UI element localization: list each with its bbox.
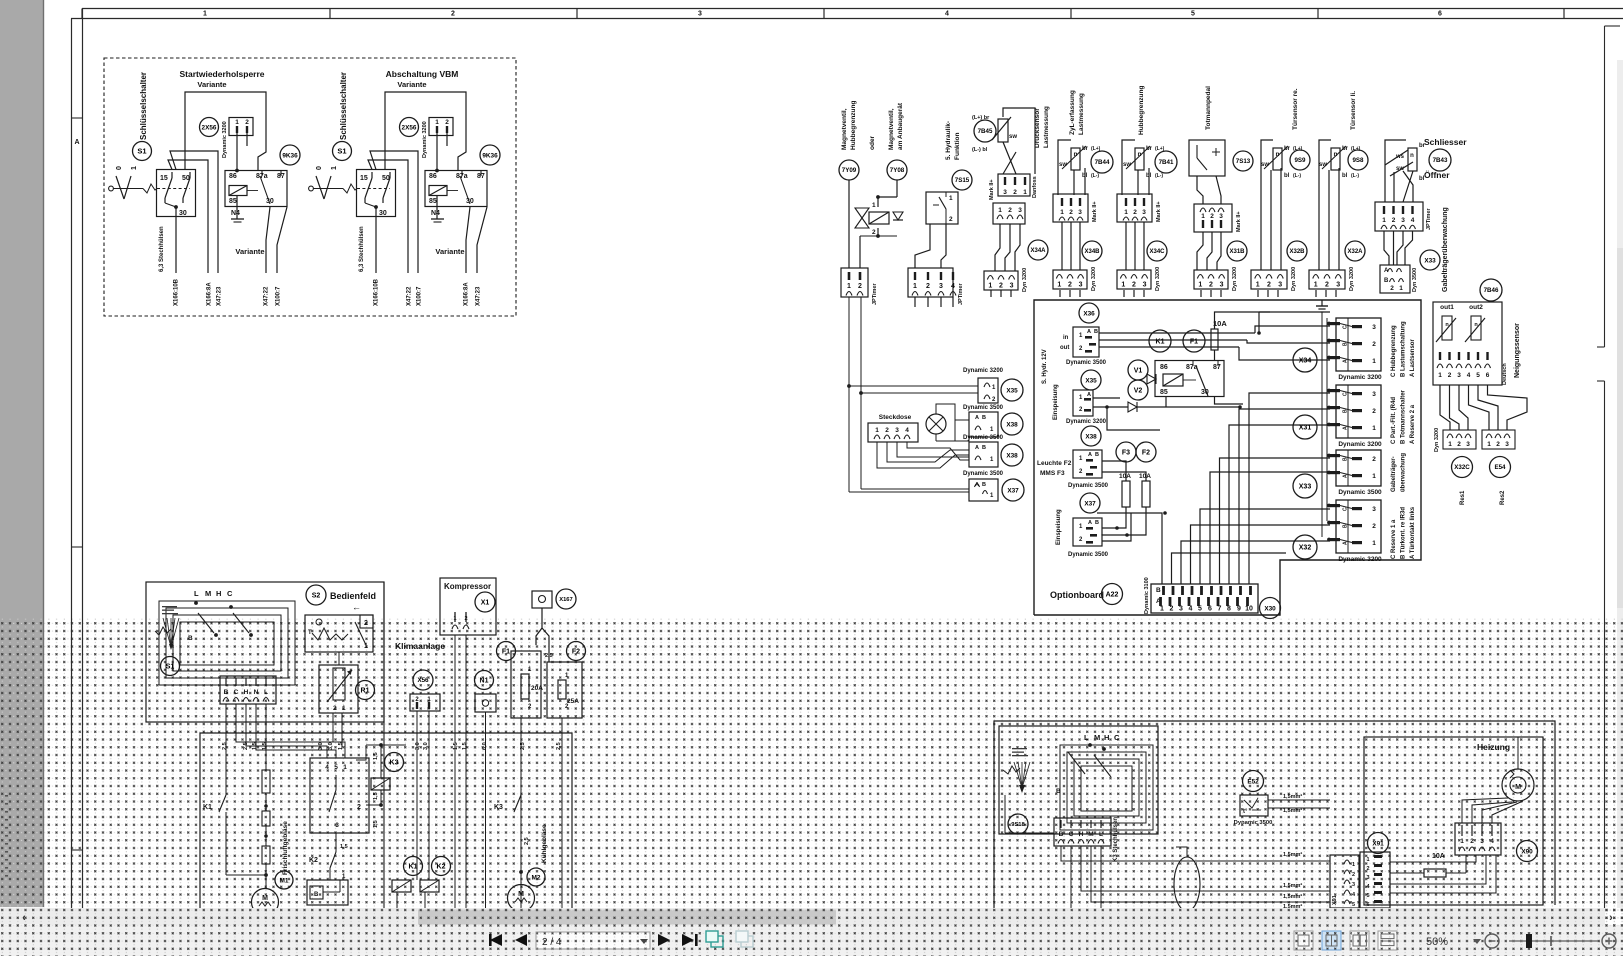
svg-text:Gabelträgerüberwachung: Gabelträgerüberwachung xyxy=(1442,207,1449,292)
svg-text:JPTimer: JPTimer xyxy=(1426,208,1432,230)
svg-text:X37: X37 xyxy=(1084,500,1096,507)
svg-text:K3: K3 xyxy=(390,760,399,767)
svg-text:1: 1 xyxy=(1487,441,1491,448)
svg-text:A: A xyxy=(1087,329,1091,335)
svg-text:sw: sw xyxy=(1009,134,1017,140)
svg-text:S1: S1 xyxy=(137,147,146,156)
svg-text:50%: 50% xyxy=(1426,936,1448,948)
svg-text:Danfoss: Danfoss xyxy=(1032,176,1038,198)
svg-text:B: B xyxy=(982,445,986,451)
svg-text:(L-): (L-) xyxy=(1155,173,1163,179)
svg-text:1: 1 xyxy=(1372,425,1376,432)
svg-text:Hubbegrenzung: Hubbegrenzung xyxy=(1138,86,1145,135)
svg-text:7B41: 7B41 xyxy=(1159,159,1174,166)
svg-text:H: H xyxy=(1079,831,1084,838)
svg-text:M: M xyxy=(518,891,524,898)
svg-text:T: T xyxy=(308,630,312,636)
svg-text:A: A xyxy=(1088,520,1092,526)
svg-text:Dynamic 3500: Dynamic 3500 xyxy=(1234,820,1273,826)
svg-text:Abschaltung VBM: Abschaltung VBM xyxy=(386,69,459,79)
svg-text:br: br xyxy=(1342,146,1349,152)
svg-text:B: B xyxy=(1343,342,1349,346)
svg-text:V1: V1 xyxy=(1134,368,1143,375)
svg-text:2: 2 xyxy=(357,804,361,811)
svg-text:7B46: 7B46 xyxy=(1484,287,1499,294)
svg-text:B: B xyxy=(1343,457,1349,461)
svg-text:Frischluftgebläse: Frischluftgebläse xyxy=(282,821,289,875)
svg-text:Magnetventil,: Magnetventil, xyxy=(888,108,895,150)
svg-text:t°: t° xyxy=(1243,809,1248,815)
svg-text:K1: K1 xyxy=(203,804,212,811)
svg-text:F3: F3 xyxy=(1122,450,1130,457)
svg-text:2: 2 xyxy=(1325,282,1329,289)
svg-text:3,0: 3,0 xyxy=(415,742,421,750)
svg-text:N4: N4 xyxy=(431,210,440,217)
svg-text:2: 2 xyxy=(364,620,368,627)
svg-text:2: 2 xyxy=(858,283,862,290)
svg-text:Bedienfeld: Bedienfeld xyxy=(330,591,376,601)
svg-text:Klimaanlage: Klimaanlage xyxy=(395,641,445,651)
svg-text:X166:10B: X166:10B xyxy=(374,278,380,306)
svg-text:1: 1 xyxy=(1124,209,1128,216)
svg-text:X34C: X34C xyxy=(1149,249,1165,255)
svg-text:4: 4 xyxy=(951,283,955,290)
svg-text:sw: sw xyxy=(1059,162,1067,168)
svg-text:2,5: 2,5 xyxy=(222,742,228,750)
svg-text:Mark II+: Mark II+ xyxy=(1092,201,1098,222)
svg-text:3: 3 xyxy=(1466,441,1470,448)
svg-text:L: L xyxy=(1099,831,1103,838)
svg-text:2: 2 xyxy=(1210,213,1214,220)
svg-text:2: 2 xyxy=(1457,441,1461,448)
svg-text:A: A xyxy=(1087,392,1091,398)
svg-text:2: 2 xyxy=(464,616,467,622)
svg-text:X56: X56 xyxy=(417,677,429,684)
svg-text:87: 87 xyxy=(1213,364,1221,371)
svg-text:7S15: 7S15 xyxy=(955,177,970,184)
svg-text:X47:23: X47:23 xyxy=(476,286,482,306)
svg-text:1: 1 xyxy=(1201,213,1205,220)
svg-text:X100:7: X100:7 xyxy=(417,286,423,306)
svg-text:C Part.-Filt. (R4d: C Part.-Filt. (R4d xyxy=(1391,397,1397,444)
svg-text:1: 1 xyxy=(949,195,953,202)
svg-text:Einspeisung: Einspeisung xyxy=(1053,384,1059,420)
svg-text:X34B: X34B xyxy=(1084,249,1100,255)
svg-text:B: B xyxy=(1384,278,1389,284)
svg-text:3,0: 3,0 xyxy=(328,742,334,750)
svg-text:2: 2 xyxy=(245,119,249,126)
svg-text:B: B xyxy=(982,482,986,488)
svg-text:›: › xyxy=(1609,912,1613,924)
svg-text:Funktion: Funktion xyxy=(954,133,961,160)
svg-text:Totmannpedal: Totmannpedal xyxy=(1205,86,1212,130)
svg-text:X47:22: X47:22 xyxy=(264,286,270,306)
svg-text:←: ← xyxy=(352,602,361,612)
svg-text:1: 1 xyxy=(1198,282,1202,289)
svg-text:86: 86 xyxy=(1160,364,1168,371)
svg-text:(L-): (L-) xyxy=(1091,173,1099,179)
svg-text:‹: ‹ xyxy=(22,912,26,924)
svg-text:Einspeisung: Einspeisung xyxy=(1056,509,1062,545)
svg-text:V2: V2 xyxy=(1134,388,1143,395)
svg-text:(L-): (L-) xyxy=(1293,173,1301,179)
svg-text:2: 2 xyxy=(1372,341,1376,348)
svg-text:1,5: 1,5 xyxy=(462,742,468,750)
svg-text:1: 1 xyxy=(331,166,338,170)
svg-text:2: 2 xyxy=(1390,285,1394,292)
svg-text:9K36: 9K36 xyxy=(282,152,298,159)
svg-text:F2: F2 xyxy=(1142,450,1150,457)
svg-text:S1: S1 xyxy=(166,664,175,671)
svg-text:A: A xyxy=(1343,359,1349,363)
svg-text:2: 2 xyxy=(451,11,455,18)
svg-text:3: 3 xyxy=(895,427,899,434)
svg-text:S. Hydr. 12V: S. Hydr. 12V xyxy=(1042,349,1048,384)
svg-text:out1: out1 xyxy=(1440,304,1454,311)
svg-text:C: C xyxy=(1343,392,1349,396)
svg-text:X38: X38 xyxy=(1006,421,1018,428)
svg-text:7B44: 7B44 xyxy=(1095,159,1110,166)
svg-text:B Totmannschalter: B Totmannschalter xyxy=(1401,389,1407,444)
svg-text:6,3 Stechhülsen: 6,3 Stechhülsen xyxy=(359,226,365,272)
svg-text:X100:7: X100:7 xyxy=(276,286,282,306)
svg-text:Dynamic 3200: Dynamic 3200 xyxy=(1338,374,1382,381)
svg-text:K2: K2 xyxy=(437,864,446,871)
svg-text:Dyn 3200: Dyn 3200 xyxy=(1022,268,1028,292)
svg-text:S2: S2 xyxy=(312,593,321,600)
svg-text:Variante: Variante xyxy=(435,247,464,256)
svg-text:7: 7 xyxy=(1218,606,1222,613)
svg-text:1,5: 1,5 xyxy=(453,742,459,750)
svg-text:86: 86 xyxy=(229,173,237,180)
svg-text:9: 9 xyxy=(1237,606,1241,613)
svg-text:Dynamic 3500: Dynamic 3500 xyxy=(963,471,1004,477)
svg-text:7Y09: 7Y09 xyxy=(842,167,857,174)
svg-text:C: C xyxy=(234,689,239,696)
svg-text:10A: 10A xyxy=(1432,853,1445,860)
svg-text:A Reserve 2 a: A Reserve 2 a xyxy=(1410,404,1416,444)
svg-text:Kühlgebläse: Kühlgebläse xyxy=(541,824,548,863)
svg-text:1: 1 xyxy=(1160,606,1164,613)
svg-text:Dynamic 3500: Dynamic 3500 xyxy=(1338,489,1382,496)
svg-text:H: H xyxy=(1104,733,1109,742)
svg-text:ZyL-erfassung: ZyL-erfassung xyxy=(1069,90,1076,135)
svg-text:5: 5 xyxy=(334,764,338,771)
svg-text:K3: K3 xyxy=(494,804,503,811)
svg-text:sw: sw xyxy=(1261,162,1269,168)
svg-text:K1: K1 xyxy=(409,864,418,871)
svg-text:7Y08: 7Y08 xyxy=(890,167,905,174)
svg-text:2: 2 xyxy=(1366,866,1369,872)
svg-text:1: 1 xyxy=(1382,217,1386,224)
svg-text:1,5mm²: 1,5mm² xyxy=(1283,793,1302,800)
svg-text:M: M xyxy=(262,895,268,902)
svg-text:X166:8A: X166:8A xyxy=(207,282,213,306)
svg-text:2: 2 xyxy=(885,427,889,434)
svg-text:3: 3 xyxy=(1372,506,1376,513)
svg-text:2: 2 xyxy=(1372,408,1376,415)
svg-text:Hubbegrenzung: Hubbegrenzung xyxy=(850,101,857,150)
svg-text:1: 1 xyxy=(872,202,876,209)
svg-text:1: 1 xyxy=(1057,282,1061,289)
svg-text:Kompressor: Kompressor xyxy=(444,582,491,591)
svg-text:5: 5 xyxy=(1476,372,1480,379)
svg-text:2: 2 xyxy=(1448,372,1452,379)
svg-text:Variante: Variante xyxy=(235,247,264,256)
svg-text:Dyn 3200: Dyn 3200 xyxy=(1291,267,1297,291)
svg-text:30: 30 xyxy=(179,210,187,217)
svg-text:X35: X35 xyxy=(1085,377,1097,384)
svg-text:K3 Stechhülsen: K3 Stechhülsen xyxy=(1113,817,1119,862)
svg-text:B: B xyxy=(1343,409,1349,413)
svg-text:3: 3 xyxy=(1219,213,1223,220)
svg-text:Deutsch: Deutsch xyxy=(1502,363,1508,385)
svg-text:1: 1 xyxy=(203,11,207,18)
svg-text:2,5: 2,5 xyxy=(524,837,530,845)
svg-text:2: 2 xyxy=(1133,209,1137,216)
svg-text:1: 1 xyxy=(342,705,346,712)
svg-text:1: 1 xyxy=(1314,282,1318,289)
svg-text:Mark II+: Mark II+ xyxy=(1236,211,1242,232)
svg-text:(L-) bl: (L-) bl xyxy=(972,147,988,153)
svg-text:30: 30 xyxy=(379,210,387,217)
svg-text:X91: X91 xyxy=(1332,895,1338,905)
svg-text:3: 3 xyxy=(1336,282,1340,289)
svg-text:X34A: X34A xyxy=(1030,248,1046,254)
svg-text:X47:23: X47:23 xyxy=(217,286,223,306)
svg-text:B: B xyxy=(1095,452,1099,458)
svg-text:L: L xyxy=(194,589,199,598)
svg-text:2: 2 xyxy=(1008,207,1012,214)
svg-text:3: 3 xyxy=(698,11,702,18)
svg-text:5: 5 xyxy=(1191,11,1195,18)
svg-text:2: 2 xyxy=(926,283,930,290)
svg-text:1: 1 xyxy=(1399,285,1403,292)
svg-text:B: B xyxy=(314,892,319,898)
svg-text:br: br xyxy=(1419,143,1426,149)
svg-text:Dyn 3200: Dyn 3200 xyxy=(1091,267,1097,291)
svg-text:N: N xyxy=(254,689,259,696)
svg-text:1,5: 1,5 xyxy=(373,752,379,760)
svg-text:Res2: Res2 xyxy=(1500,490,1506,505)
svg-text:1: 1 xyxy=(1372,358,1376,365)
svg-text:2: 2 xyxy=(1352,872,1355,878)
svg-text:N1: N1 xyxy=(480,678,489,685)
svg-text:C: C xyxy=(227,589,233,598)
svg-text:Dyn 3200: Dyn 3200 xyxy=(1434,428,1440,452)
svg-text:Steckdose: Steckdose xyxy=(879,414,912,421)
svg-text:E52: E52 xyxy=(1247,778,1259,785)
svg-text:F2: F2 xyxy=(572,649,580,656)
svg-text:7B45: 7B45 xyxy=(978,128,993,135)
svg-text:X32C: X32C xyxy=(1454,464,1470,471)
svg-text:X32A: X32A xyxy=(1347,249,1363,255)
svg-text:6: 6 xyxy=(1486,372,1490,379)
svg-text:1: 1 xyxy=(1372,473,1376,480)
svg-text:9K36: 9K36 xyxy=(482,152,498,159)
svg-text:C Reserve 1 a: C Reserve 1 a xyxy=(1391,519,1397,559)
svg-text:X38: X38 xyxy=(1085,433,1097,440)
svg-text:B: B xyxy=(188,635,193,642)
svg-text:X35: X35 xyxy=(1006,387,1018,394)
svg-text:R1: R1 xyxy=(361,688,370,695)
svg-text:br: br xyxy=(1284,146,1291,152)
svg-text:1: 1 xyxy=(847,283,851,290)
svg-text:A: A xyxy=(1343,426,1349,430)
svg-text:3: 3 xyxy=(1079,282,1083,289)
svg-text:1: 1 xyxy=(988,283,992,290)
svg-text:X167: X167 xyxy=(559,597,573,603)
svg-text:2: 2 xyxy=(1470,838,1474,845)
svg-text:C: C xyxy=(1343,325,1349,329)
svg-text:3: 3 xyxy=(1366,875,1369,881)
svg-text:JPTimer: JPTimer xyxy=(958,283,964,305)
svg-text:3: 3 xyxy=(1143,282,1147,289)
svg-text:Schlüsselschalter: Schlüsselschalter xyxy=(339,72,348,140)
svg-text:M: M xyxy=(1088,831,1093,838)
svg-text:3: 3 xyxy=(1179,606,1183,613)
svg-text:(L-): (L-) xyxy=(1351,173,1359,179)
svg-text:X32: X32 xyxy=(1299,545,1312,552)
svg-text:Dyn 3200: Dyn 3200 xyxy=(1349,267,1355,291)
svg-text:1,5: 1,5 xyxy=(338,742,344,750)
svg-text:2,5: 2,5 xyxy=(545,653,553,659)
svg-text:Dynamic 3200: Dynamic 3200 xyxy=(1066,419,1107,425)
svg-text:2: 2 xyxy=(1013,189,1017,196)
svg-text:1: 1 xyxy=(998,207,1002,214)
svg-text:Dynamic 3200: Dynamic 3200 xyxy=(1338,441,1382,448)
svg-text:1: 1 xyxy=(435,119,439,126)
svg-text:20A: 20A xyxy=(531,685,543,692)
svg-text:Optionboard: Optionboard xyxy=(1050,590,1104,600)
svg-text:2X56: 2X56 xyxy=(202,124,217,131)
svg-text:B: B xyxy=(224,689,229,696)
svg-text:Lastmessung: Lastmessung xyxy=(1078,93,1085,135)
svg-text:2: 2 xyxy=(1069,209,1073,216)
svg-text:B: B xyxy=(1156,587,1161,594)
svg-text:1: 1 xyxy=(235,119,239,126)
svg-text:1: 1 xyxy=(1366,857,1369,863)
svg-text:(L+) br: (L+) br xyxy=(972,115,990,121)
svg-text:in: in xyxy=(1063,335,1069,341)
svg-text:Dynamic 3100: Dynamic 3100 xyxy=(1144,577,1150,614)
svg-text:Dynamic 3500: Dynamic 3500 xyxy=(963,405,1004,411)
svg-text:5: 5 xyxy=(1198,606,1202,613)
svg-text:X32B: X32B xyxy=(1289,249,1305,255)
svg-text:MMS F3: MMS F3 xyxy=(1040,470,1065,477)
svg-text:7B43: 7B43 xyxy=(1433,157,1448,164)
svg-text:A Lastsensor: A Lastsensor xyxy=(1410,339,1416,377)
svg-text:3: 3 xyxy=(1010,283,1014,290)
svg-text:M: M xyxy=(1515,784,1521,791)
svg-text:A: A xyxy=(975,415,979,421)
svg-text:out2: out2 xyxy=(1469,304,1483,311)
svg-text:X33: X33 xyxy=(1299,484,1312,491)
svg-text:3: 3 xyxy=(1142,209,1146,216)
svg-text:Magnetventil,: Magnetventil, xyxy=(841,108,848,150)
svg-text:A Türkontakt links: A Türkontakt links xyxy=(1410,506,1416,559)
svg-text:X38: X38 xyxy=(1006,452,1018,459)
svg-text:Öffner: Öffner xyxy=(1424,170,1450,180)
svg-text:out: out xyxy=(1060,345,1069,351)
svg-text:1: 1 xyxy=(1438,372,1442,379)
svg-text:2: 2 xyxy=(872,229,876,236)
svg-text:br: br xyxy=(1082,146,1089,152)
svg-text:Neigungssensor: Neigungssensor xyxy=(1514,323,1521,378)
svg-text:K2: K2 xyxy=(309,857,318,864)
svg-text:B Lastumschaltung: B Lastumschaltung xyxy=(1401,321,1407,377)
svg-text:4: 4 xyxy=(945,11,949,18)
svg-text:Dynamic 3200: Dynamic 3200 xyxy=(1338,556,1382,563)
svg-text:1,5: 1,5 xyxy=(373,792,379,800)
svg-text:oder: oder xyxy=(869,135,876,150)
svg-text:Dyn 3500: Dyn 3500 xyxy=(1412,268,1418,292)
svg-text:A: A xyxy=(74,139,79,146)
svg-text:10A: 10A xyxy=(1213,319,1227,328)
svg-text:X36: X36 xyxy=(1083,310,1095,317)
svg-text:Dynamic 3500: Dynamic 3500 xyxy=(1068,552,1109,558)
svg-text:Türsensor li.: Türsensor li. xyxy=(1350,91,1357,130)
svg-text:86: 86 xyxy=(429,173,437,180)
svg-text:Schliesser: Schliesser xyxy=(1424,137,1467,147)
svg-text:3: 3 xyxy=(1220,282,1224,289)
svg-text:1: 1 xyxy=(131,166,138,170)
svg-text:3: 3 xyxy=(1505,441,1509,448)
svg-text:Variante: Variante xyxy=(397,80,426,89)
svg-text:6,3 Stechhülsen: 6,3 Stechhülsen xyxy=(159,226,165,272)
svg-text:10: 10 xyxy=(1245,606,1253,613)
svg-text:1: 1 xyxy=(1121,282,1125,289)
svg-text:L: L xyxy=(264,689,268,696)
svg-text:Startwiederholsperre: Startwiederholsperre xyxy=(179,69,264,79)
svg-text:A22: A22 xyxy=(1106,592,1119,599)
svg-text:n: n xyxy=(1410,153,1414,159)
svg-text:Variante: Variante xyxy=(197,80,226,89)
svg-text:1: 1 xyxy=(1023,189,1027,196)
svg-text:2: 2 xyxy=(1372,456,1376,463)
svg-text:9S18: 9S18 xyxy=(1011,822,1025,828)
svg-text:bl: bl xyxy=(1419,176,1425,182)
svg-text:X91: X91 xyxy=(1372,840,1384,847)
svg-text:2: 2 xyxy=(1496,441,1500,448)
svg-text:Dynamic 3500: Dynamic 3500 xyxy=(963,435,1004,441)
svg-text:1: 1 xyxy=(875,427,879,434)
svg-text:2 / 4: 2 / 4 xyxy=(542,937,562,948)
svg-text:25A: 25A xyxy=(567,698,579,705)
svg-text:Mark II+: Mark II+ xyxy=(1156,201,1162,222)
svg-text:X33: X33 xyxy=(1424,257,1436,264)
svg-text:Res1: Res1 xyxy=(1460,490,1466,505)
svg-text:3: 3 xyxy=(1003,189,1007,196)
svg-text:L: L xyxy=(1084,733,1089,742)
svg-text:2: 2 xyxy=(1068,282,1072,289)
svg-text:3: 3 xyxy=(939,283,943,290)
svg-text:Mark II+: Mark II+ xyxy=(989,179,995,200)
svg-text:3: 3 xyxy=(1457,372,1461,379)
svg-text:Lastmessung: Lastmessung xyxy=(1043,106,1050,148)
svg-text:3: 3 xyxy=(1372,324,1376,331)
svg-text:2: 2 xyxy=(1132,282,1136,289)
svg-text:E54: E54 xyxy=(1494,464,1506,471)
svg-text:4: 4 xyxy=(1490,838,1494,845)
svg-text:15: 15 xyxy=(160,175,168,182)
svg-text:1,5: 1,5 xyxy=(373,820,379,828)
svg-text:7S13: 7S13 xyxy=(1236,158,1251,165)
svg-text:C Hubbegrenzung: C Hubbegrenzung xyxy=(1391,325,1397,377)
svg-text:B: B xyxy=(1094,329,1098,335)
svg-text:X34: X34 xyxy=(1299,358,1312,365)
svg-text:9S8: 9S8 xyxy=(1352,157,1364,164)
